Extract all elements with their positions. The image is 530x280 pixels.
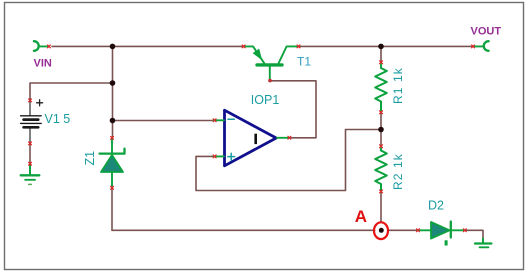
pin mark T1 base [268,79,272,83]
wire junction to R2 top [380,130,382,147]
zener Z1 bottom lead [111,172,113,187]
terminal VOUT lead [475,45,483,47]
resistor R2 zigzag [375,151,387,191]
terminal VIN lead [40,45,49,47]
ground battery stub [29,166,31,175]
svg-text:R1 1k: R1 1k [391,67,405,104]
op-amp minus sign [228,118,234,120]
wire op-amp output to T1 base [271,81,316,138]
battery V1 plate long 1 [21,115,42,117]
pin mark T1 collector [297,45,300,48]
op-amp plus sign [228,153,235,160]
node A center dot [379,228,384,233]
wire node A to D2 [389,229,418,231]
op-amp output lead [277,137,289,139]
pin mark D2 cathode [463,229,466,232]
resistor R1 zigzag [375,68,387,111]
pin mark op-amp minus [213,119,216,122]
diode D2 anode lead [419,229,431,231]
battery V1 plus sign [37,100,43,106]
pin mark VIN [48,45,51,48]
wire R1 bottom to junction [380,112,382,130]
battery V1 plate short 2 [24,126,39,129]
diode D2 triangle [431,222,450,239]
pin mark battery plus [29,99,32,102]
op-amp minus input lead [214,119,225,121]
pin mark T1 emitter [242,45,245,48]
wire VIN junction down [112,46,114,120]
diode D2 mark [445,240,448,245]
svg-text:A: A [355,207,367,226]
resistor R2 top lead [380,148,382,151]
svg-text:VOUT: VOUT [471,26,502,38]
transistor T1 emitter arrow [254,50,261,58]
junction battery tap [110,80,116,86]
svg-text:VIN: VIN [34,57,52,69]
wire Z1 bottom to bottom rail [111,188,113,230]
transistor T1 base lead [269,67,271,80]
pin mark Z1 bottom [111,186,114,189]
resistor R1 top lead [380,64,382,68]
pin mark VOUT [472,45,475,48]
wire top rail VIN to T1 emitter [52,45,243,47]
zener Z1 triangle [101,155,123,172]
wire top rail T1 collector to VOUT [299,45,472,47]
wire bottom rail to node A [112,229,375,231]
transistor T1 emitter lead [244,46,264,63]
ground D2 stub [482,239,484,243]
junction R1/R2 feedback [378,127,384,133]
ground D2 bar short [480,246,489,248]
pin mark D2 anode [417,229,420,232]
terminal VOUT arc [484,41,489,51]
svg-text:Z1: Z1 [83,151,97,166]
diode D2 cathode bar [450,222,452,238]
svg-text:IOP1: IOP1 [251,93,280,107]
svg-text:R2 1k: R2 1k [391,153,405,190]
terminal VIN arc [34,41,39,51]
svg-text:V1 5: V1 5 [45,112,71,126]
node A circle [374,222,388,239]
transistor T1 base bar [257,63,282,66]
pin mark R2 top [380,145,383,148]
pin mark R1 bottom [380,111,383,114]
op-amp ideal I marking [254,134,257,144]
wire R1 top [380,46,382,62]
pin mark R1 top [380,61,383,64]
zener Z1 cathode bar [100,149,125,154]
pin mark op-amp output [288,136,291,139]
pin mark ground 1 [29,162,32,165]
pin mark R2 bottom [380,190,383,193]
pin mark op-amp plus [213,155,216,158]
transistor T1 collector lead [279,46,299,63]
pin mark Z1 top [111,136,114,139]
junction Z1 / op-amp minus [110,118,116,124]
junction VIN rail top [110,44,116,50]
ground battery bar short [25,179,35,181]
ground battery bar tiny [29,183,32,185]
wire to battery top [30,83,113,99]
zener Z1 top lead [111,140,113,153]
svg-text:D2: D2 [428,199,444,213]
diode D2 cathode lead [452,229,464,231]
wire op-amp plus input feedback [196,130,378,191]
wire junction to Z1 top [112,121,114,139]
battery V1 plate short 1 [24,118,39,121]
op-amp plus input lead [214,155,225,157]
svg-text:T1: T1 [297,54,311,68]
wire battery bottom to ground [29,144,31,166]
battery V1 top lead [29,99,31,115]
ground D2 bar long [475,242,491,244]
wire R2 bottom to node A [380,192,382,222]
op-amp IOP1 triangle [225,110,277,166]
wire D2 to ground [466,230,484,238]
pin mark battery minus [29,142,32,145]
wire junction to op-amp minus input [113,120,214,122]
battery V1 bottom lead [29,128,31,144]
ground battery bar long [21,174,40,176]
battery V1 plate long 2 [21,122,42,124]
junction VOUT rail / R1 [378,44,384,50]
